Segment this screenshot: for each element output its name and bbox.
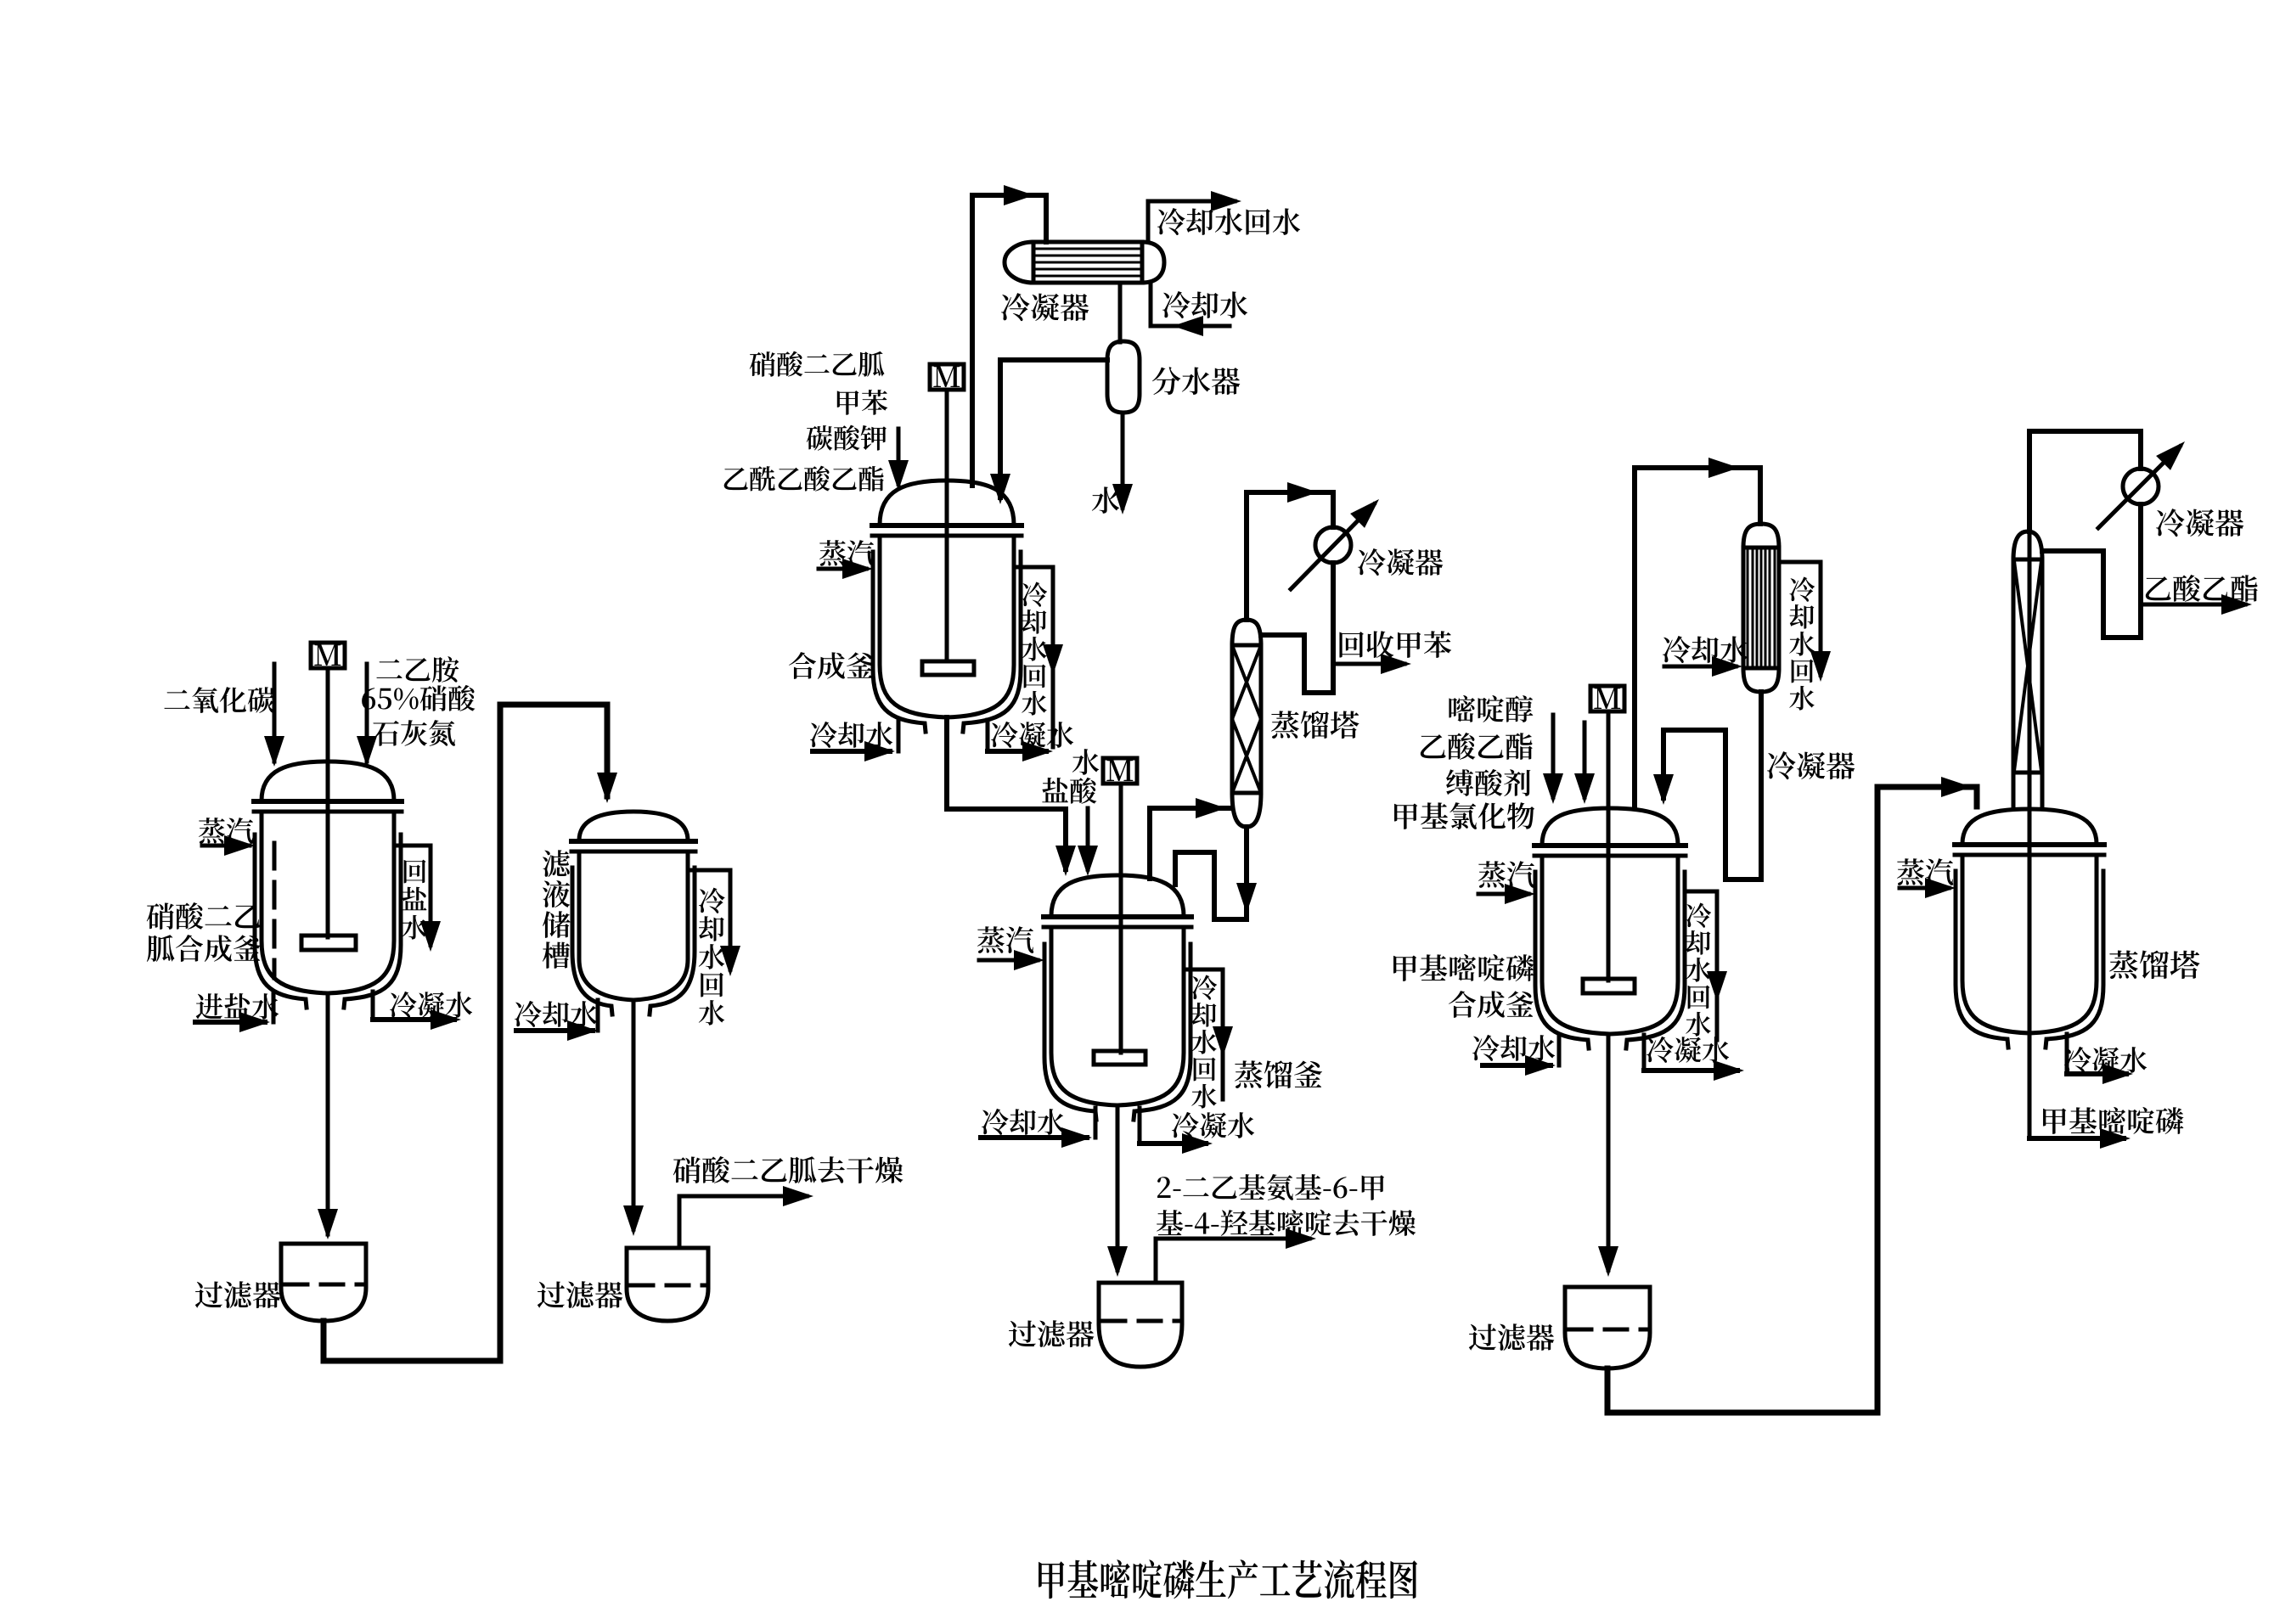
- label 滤液储槽 (vertical): [543, 850, 571, 969]
- label 冷却水 K1: [982, 1109, 1064, 1135]
- reactor R2 flange: [872, 523, 1022, 528]
- column D1 (蒸馏塔) with X packing: [1232, 620, 1261, 827]
- label 盐酸 (K1 feed): [1042, 778, 1096, 804]
- filter F3: [1099, 1283, 1182, 1367]
- water outlet from separator: [1121, 413, 1125, 508]
- motor M1 of reactor R1: [311, 643, 345, 668]
- label 冷却水 C1: [1162, 291, 1247, 318]
- label 乙酸乙酯 (R3 feed): [1421, 733, 1533, 760]
- feed arrow 二乙胺/65%硝酸/石灰氮 into R1: [365, 664, 369, 761]
- condensate outlet R2: [986, 720, 990, 751]
- wire R1 outlet to filter F1: [326, 993, 330, 1234]
- cooling water inlet K1: [1094, 1108, 1098, 1138]
- steam arrow into R2 jacket: [819, 567, 866, 571]
- label 乙酸乙酯 (product): [2146, 575, 2258, 602]
- kettle K1 flange: [1044, 914, 1191, 919]
- wire R3 outlet to filter F4: [1607, 1034, 1611, 1270]
- vapor riser R3 to condenser C3: [1635, 468, 1760, 806]
- steam arrow into R3 jacket: [1478, 892, 1528, 896]
- cooling water inlet R3: [1557, 1035, 1562, 1065]
- condensate outlet K1: [1138, 1108, 1142, 1144]
- label 冷却水回水 C3 (vertical): [1789, 577, 1815, 711]
- label 二氧化碳: [164, 687, 274, 713]
- wire C1 to separator: [1118, 283, 1123, 342]
- wire F2 to drying: [679, 1196, 807, 1248]
- label 冷却水 V2: [515, 1001, 597, 1027]
- label 蒸馏塔 D2: [2109, 951, 2199, 980]
- cooling water return C1: [1148, 201, 1235, 242]
- reactor R1 jacket: [255, 834, 307, 1008]
- label 过滤器 F4: [1469, 1323, 1554, 1351]
- reflux loop D2: [2042, 551, 2141, 638]
- label 基-4-羟基嘧啶去干燥: [1157, 1210, 1416, 1236]
- vapor riser K1 to column D1: [1150, 808, 1232, 879]
- brine return channel R1: [394, 844, 431, 848]
- feed arrow 水盐酸 into K1: [1086, 808, 1090, 869]
- label 蒸汽 R3: [1478, 861, 1534, 888]
- label 石灰氮: [373, 720, 455, 746]
- label 甲苯 (R2 feed): [837, 390, 887, 415]
- reactor R1 dome: [262, 761, 394, 801]
- label 硝酸二乙胍去干燥: [673, 1156, 903, 1183]
- condensate outlet K2: [2065, 1034, 2069, 1074]
- label 水 (separator outlet): [1092, 486, 1119, 514]
- label 蒸汽 R2: [819, 540, 874, 566]
- label 蒸汽 K1: [977, 926, 1033, 953]
- kettle K2 flange: [1955, 842, 2104, 847]
- condenser C1 (horizontal shell-tube): [1005, 242, 1164, 283]
- kettle K2 body: [1962, 855, 2097, 1033]
- kettle K2 dome: [1962, 809, 2097, 844]
- condenser C4 (circle): [2123, 469, 2159, 504]
- tank V2 jacket: [572, 868, 612, 1014]
- reactor R1 body: [262, 812, 394, 993]
- label 硝酸二乙胍 (R2 feed): [750, 351, 885, 377]
- motor M3 of kettle K1: [1103, 758, 1137, 784]
- label 进盐水: [196, 993, 279, 1020]
- column D2 axis line: [2028, 535, 2032, 1138]
- wire F3 to drying: [1156, 1239, 1309, 1283]
- label 碳酸钾 (R2 feed): [807, 425, 887, 451]
- label 蒸馏塔 D1: [1271, 711, 1359, 739]
- label 过滤器 F1: [195, 1281, 280, 1308]
- filter F1: [281, 1244, 366, 1321]
- steam arrow into R1 jacket: [202, 844, 250, 848]
- label 冷凝水 R1: [390, 992, 472, 1018]
- cooling water inlet V2: [596, 1000, 600, 1031]
- label 分水器: [1152, 367, 1240, 395]
- transfer line F4 to kettle K2: [1607, 787, 1977, 1413]
- label 蒸汽 R1: [199, 818, 253, 844]
- label 甲基氯化物 (R3 feed): [1394, 802, 1534, 829]
- label 嘧啶醇 (R3 feed): [1449, 695, 1533, 722]
- label 蒸汽 K2: [1897, 858, 1953, 885]
- label 冷凝水 R2: [991, 722, 1073, 748]
- reactor R1 flange: [254, 799, 402, 804]
- label 冷却水回水 R2 (vertical): [1022, 582, 1047, 716]
- label 冷凝器 C4: [2156, 509, 2243, 537]
- label 冷凝器 C2: [1358, 548, 1443, 576]
- reactor R2 body: [880, 536, 1014, 717]
- label 冷凝水 K2: [2064, 1047, 2147, 1073]
- condensate outlet R1: [371, 992, 375, 1020]
- stirrer shaft K1: [1119, 784, 1123, 1053]
- motor M2 of reactor R2: [930, 364, 964, 390]
- product arrow 回收甲苯: [1333, 662, 1404, 666]
- condenser C2 (circle): [1315, 527, 1351, 563]
- condensate return C3 to R3: [1663, 692, 1761, 879]
- label 水 (K1 feed): [1072, 749, 1099, 775]
- label 冷却水 R2: [810, 722, 892, 748]
- label 甲基嘧啶磷 (R3 name line1): [1393, 954, 1534, 981]
- cooling water inlet R2: [897, 720, 901, 751]
- label 冷却水回水 K1 (vertical): [1191, 975, 1217, 1109]
- kettle K1 dome: [1051, 875, 1184, 916]
- label 冷凝器 C3: [1767, 751, 1855, 779]
- label 冷却水 R3: [1472, 1035, 1555, 1061]
- condenser C3 (vertical shell-tube): [1743, 524, 1779, 692]
- label 硝酸二乙 (R1 name line1): [147, 902, 261, 930]
- vapor riser R2 to condenser C1: [972, 195, 1046, 486]
- cooling channel R2 right: [1014, 565, 1053, 570]
- reactor R3 dome: [1542, 808, 1678, 845]
- cooling water inlet C1: [1149, 283, 1153, 326]
- stirrer paddle R2: [922, 661, 974, 675]
- kettle K1 body: [1051, 927, 1184, 1105]
- label 冷却水回水 V2 (vertical): [699, 888, 725, 1026]
- cooling channel R3 right: [1685, 890, 1717, 894]
- filter F4: [1565, 1287, 1650, 1368]
- wire D2 top to condenser C4: [2029, 431, 2141, 531]
- reactor R3 body: [1542, 856, 1678, 1034]
- feed arrow 二氧化碳 into R1: [273, 664, 277, 761]
- stirrer shaft R2: [945, 390, 949, 661]
- product line 甲基嘧啶磷: [2029, 1136, 2124, 1141]
- feed arrow 1 into R3: [1551, 715, 1556, 797]
- reactor R3 jacket: [1535, 872, 1589, 1048]
- reactor R3 flange: [1534, 843, 1686, 848]
- reactor R2 jacket: [873, 552, 926, 732]
- cooling water channel V2: [688, 868, 730, 873]
- label 过滤器 F3: [1009, 1320, 1094, 1347]
- label 回盐水 (vertical): [402, 860, 426, 940]
- label 过滤器 F2: [538, 1281, 622, 1308]
- wire V2 outlet to filter F2: [632, 1000, 636, 1229]
- kettle K2 jacket: [1956, 871, 2008, 1048]
- steam arrow into K2 jacket: [1900, 886, 1949, 891]
- title 甲基嘧啶磷生产工艺流程图: [1039, 1559, 1417, 1599]
- cooling water return C3: [1779, 562, 1821, 675]
- stirrer paddle R1: [301, 936, 356, 950]
- reflux wire separator to R2: [1000, 360, 1107, 497]
- cooling water inlet C3: [1664, 665, 1736, 669]
- tank V2 flange: [571, 839, 695, 844]
- reflux loop D1: [1261, 635, 1333, 693]
- wire F1 to tank V2: [324, 705, 607, 1361]
- tank V2 dome (滤液储槽): [579, 812, 688, 840]
- column D2 (packed) shell: [2013, 531, 2042, 806]
- product arrow 乙酸乙酯: [2141, 603, 2245, 607]
- label 合成釜 R2: [789, 652, 874, 679]
- label 冷却水 C3: [1663, 636, 1748, 663]
- separator 分水器: [1107, 341, 1140, 413]
- label 回收甲苯: [1339, 631, 1451, 658]
- wire D1 top to condenser C2: [1247, 492, 1333, 620]
- label 蒸馏釜: [1235, 1060, 1322, 1088]
- label 65%硝酸: [362, 685, 475, 711]
- stirrer paddle R3: [1583, 979, 1635, 993]
- label 甲基嘧啶磷 (product): [2043, 1107, 2183, 1134]
- stirrer shaft R3: [1607, 711, 1611, 981]
- reactor R2 dome: [880, 480, 1014, 525]
- condensate outlet R3: [1642, 1035, 1646, 1070]
- label 胍合成釜 (R1 name line2): [147, 935, 261, 962]
- label 合成釜 (R3 name line2): [1449, 991, 1534, 1018]
- label 冷凝器 C1: [1001, 293, 1089, 321]
- cooling channel K1 right: [1185, 968, 1223, 972]
- brine inlet channel R1: [272, 992, 276, 1022]
- motor M4 of reactor R3: [1590, 686, 1624, 711]
- label 冷凝水 R3: [1646, 1037, 1729, 1063]
- steam arrow into K1 jacket: [979, 958, 1038, 963]
- label 冷凝水 K1: [1172, 1112, 1254, 1138]
- stirrer paddle K1: [1094, 1051, 1145, 1065]
- label 2-二乙基氨基-6-甲: [1157, 1174, 1384, 1200]
- tank V2 body: [579, 851, 688, 1000]
- label 缚酸剂 (R3 feed): [1446, 769, 1530, 796]
- stirrer shaft R1: [326, 668, 330, 937]
- feed arrow 2 into R3: [1583, 722, 1587, 797]
- wire R2 outlet to kettle K1: [947, 717, 1066, 869]
- wire K1 outlet to filter F3: [1116, 1107, 1120, 1270]
- label 冷却水回水 R3 (vertical): [1686, 903, 1711, 1037]
- bottoms return D1 to K1: [1175, 827, 1247, 919]
- kettle K1 jacket: [1044, 944, 1096, 1120]
- label 二乙胺: [376, 656, 459, 683]
- label 乙酰乙酸乙酯 (R2 feed): [724, 466, 884, 492]
- feed arrow into R2: [897, 429, 901, 484]
- filter F2: [627, 1248, 708, 1321]
- reactor R1 dip tube (dashed): [273, 843, 277, 978]
- label 冷却水回水 C1: [1157, 208, 1300, 235]
